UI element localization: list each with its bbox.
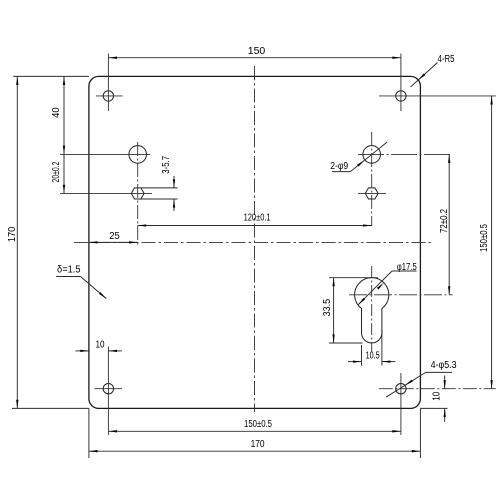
dim 3-5.7 extensions — [141, 187, 178, 189]
dim 10 bottom-right — [444, 376, 446, 389]
svg-text:25: 25 — [109, 231, 120, 242]
svg-text:170: 170 — [7, 226, 18, 242]
dim 150 top — [108, 57, 401, 59]
svg-text:10: 10 — [432, 391, 443, 400]
centerline left hexagon horizontal / 20 dim extension — [60, 192, 152, 194]
centerline BR hole vertical — [400, 373, 402, 435]
dim 40 — [63, 76, 65, 154]
svg-text:150±0.5: 150±0.5 — [479, 224, 490, 252]
dim 10.5 extensions — [361, 345, 363, 366]
centerline right column vertical — [371, 132, 373, 226]
centerline TR hole vertical — [400, 54, 402, 112]
dim 10 bottom-left — [75, 350, 89, 352]
dim 120±0.1 — [138, 225, 372, 227]
centerline TR hole horizontal / right dim extension — [379, 95, 496, 97]
circle phi9 left — [129, 146, 147, 164]
centerline BL hole horizontal — [95, 388, 123, 390]
centerline keyhole horizontal / 72 dim extension — [349, 294, 453, 296]
wire right edge extension down — [419, 408, 421, 458]
centerline BR hole horizontal / right dim extension — [379, 388, 496, 390]
dim 150±0.5 right — [491, 96, 493, 389]
label 4-R5 leader — [411, 63, 438, 88]
dim 20±0.2 — [63, 154, 65, 193]
dim 3-5.7 — [173, 176, 175, 188]
centerline plate horizontal — [74, 241, 433, 243]
wire bottom edge extension right — [420, 407, 447, 409]
circle phi9 right — [363, 146, 381, 164]
svg-text:φ17.5: φ17.5 — [397, 262, 417, 273]
dim 25 — [89, 241, 138, 243]
dim 10.5 — [348, 361, 362, 363]
hole BR — [396, 384, 406, 394]
svg-text:20±0.2: 20±0.2 — [51, 161, 62, 182]
svg-text:δ=1.5: δ=1.5 — [57, 265, 81, 276]
svg-text:40: 40 — [51, 107, 62, 118]
svg-text:72±0.2: 72±0.2 — [439, 209, 450, 233]
dim 170 left — [16, 76, 18, 408]
label 4-phi5.3 leader — [426, 371, 452, 373]
svg-text:4-φ5.3: 4-φ5.3 — [431, 360, 457, 371]
label 2-phi9 leader — [332, 171, 350, 173]
dim 33.5 extensions — [329, 277, 378, 279]
svg-text:170: 170 — [251, 439, 265, 450]
svg-text:120±0.1: 120±0.1 — [244, 212, 271, 223]
wire bottom edge extension left — [12, 407, 89, 409]
svg-text:10: 10 — [96, 339, 105, 350]
dim 170 bottom — [89, 450, 421, 452]
svg-text:4-R5: 4-R5 — [438, 54, 455, 65]
wire top edge extension left — [13, 75, 89, 77]
label phi17.5 leader — [392, 270, 417, 272]
keyhole — [355, 278, 389, 343]
centerline TL hole vertical — [107, 54, 109, 112]
centerline left circle horizontal / 40-20 dim extension — [60, 153, 150, 155]
svg-text:10.5: 10.5 — [366, 351, 380, 362]
hole BL — [103, 384, 113, 394]
svg-text:150±0.5: 150±0.5 — [244, 419, 272, 430]
centerline BL hole vertical — [107, 347, 109, 436]
hole TR — [396, 91, 406, 101]
svg-text:3-5.7: 3-5.7 — [161, 155, 172, 173]
dim 72±0.2 — [448, 154, 450, 294]
centerline TL hole horizontal — [96, 95, 123, 97]
hexagon right — [365, 188, 378, 199]
plate outline — [89, 76, 421, 408]
hole TL — [103, 91, 113, 101]
wire left edge extension down — [88, 408, 90, 458]
svg-text:150: 150 — [248, 46, 266, 57]
centerline left column vertical — [137, 142, 139, 245]
dim 33.5 — [333, 278, 335, 343]
dim 150±0.5 bottom — [108, 430, 401, 432]
svg-text:2-φ9: 2-φ9 — [330, 161, 348, 172]
centerline right circle horizontal / 72 dim extension — [358, 153, 453, 155]
svg-text:33.5: 33.5 — [322, 298, 333, 316]
label delta=1.5 leader — [56, 276, 80, 278]
centerline right hexagon horizontal — [358, 192, 386, 194]
centerline plate vertical — [254, 66, 256, 412]
centerline keyhole vertical — [371, 266, 373, 352]
hexagon left — [131, 188, 144, 199]
